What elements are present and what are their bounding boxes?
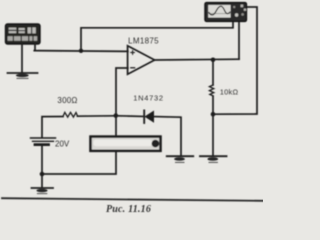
label 1N4732 <box>133 93 163 102</box>
label 300 ohm <box>57 96 77 105</box>
resistor R1 300 ohm <box>63 112 78 117</box>
wire generator left lead <box>21 44 23 73</box>
node feedback junction <box>114 113 119 118</box>
label 20V <box>55 140 70 149</box>
wire resistor to scope-ground node <box>212 96 214 113</box>
resistor R2 10k <box>209 85 213 96</box>
ground under generator <box>8 73 38 78</box>
signal generator G1 (pictorial module) <box>6 24 41 44</box>
node ground junction <box>40 172 45 177</box>
ground right of diode <box>167 156 193 162</box>
node output junction <box>211 58 216 63</box>
load LS1 (pictorial transducer) <box>91 137 161 151</box>
svg-text:Рис. 11.16: Рис. 11.16 <box>106 204 151 215</box>
op-amp U1 <box>128 46 155 74</box>
svg-text:1N4732: 1N4732 <box>133 93 163 102</box>
zener diode VD1 <box>144 110 153 123</box>
wire ground rail to load bottom <box>42 151 116 174</box>
wire diode to right ground <box>154 117 181 156</box>
caption Puc. 11.16 <box>106 204 151 215</box>
wire op-amp output <box>155 58 239 61</box>
page rule <box>2 198 263 201</box>
wire output to oscilloscope CH2 <box>238 22 240 60</box>
wire node to bottom ground <box>212 114 214 155</box>
wire battery to ground junction <box>41 146 43 174</box>
wire oscilloscope ground return <box>215 7 257 114</box>
node scope ground junction <box>211 112 216 117</box>
battery B1 <box>31 138 56 145</box>
svg-text:LM1875: LM1875 <box>128 37 159 46</box>
wire feedback node to 300 ohm <box>77 115 113 117</box>
wire 300 ohm to battery <box>42 117 63 138</box>
label LM1875 <box>128 37 159 46</box>
wire input to oscilloscope CH1 <box>81 22 233 51</box>
oscilloscope (pictorial) <box>205 3 246 22</box>
ground under 10k <box>200 156 227 162</box>
label 10k <box>220 87 239 96</box>
wire input line to op-amp <box>34 50 128 53</box>
wire output node to resistor <box>212 60 214 85</box>
wire inverting input <box>116 68 128 114</box>
wire load top to feedback node <box>115 118 117 137</box>
wire feedback node to diode <box>118 115 144 118</box>
ground bottom left <box>32 174 54 194</box>
svg-text:300Ω: 300Ω <box>57 96 77 105</box>
wire generator right lead <box>34 44 36 51</box>
node input junction <box>79 49 83 53</box>
svg-text:10kΩ: 10kΩ <box>220 87 239 96</box>
svg-text:20V: 20V <box>55 140 70 149</box>
